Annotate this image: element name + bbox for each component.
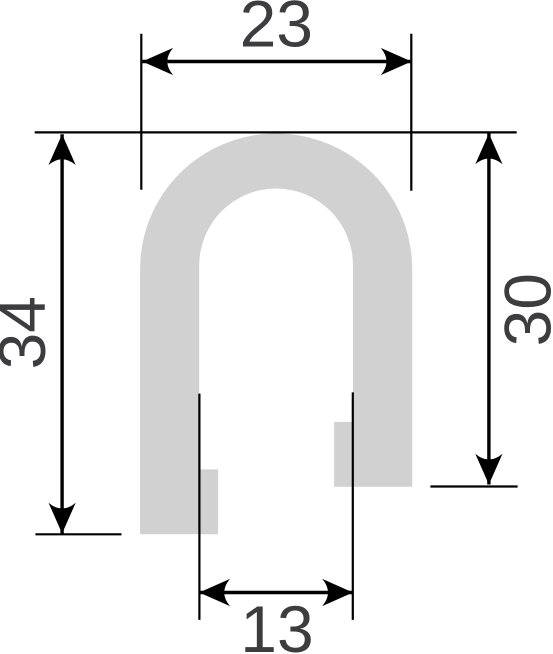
left inner rib bump (199, 469, 218, 534)
right extension line of dim 23 (410, 34, 412, 191)
arrowhead 34 up (49, 134, 76, 165)
svg-text:13: 13 (240, 592, 313, 654)
arrowhead 13 right (322, 579, 353, 606)
bottom-left extension line (datum for 34) (35, 533, 121, 535)
arrowhead 13 left (199, 579, 230, 606)
right extension line of dim 13 (352, 392, 354, 620)
arrowhead 34 down (49, 503, 76, 534)
dimension line 34 (60, 134, 63, 533)
arrowhead 23 left (142, 48, 173, 75)
U-channel profile body (140, 134, 412, 535)
left extension line of dim 23 (140, 34, 142, 190)
right inner rib bump (334, 422, 353, 487)
dimension line 13 (199, 591, 353, 594)
dimension line 30 (487, 134, 490, 485)
svg-text:30: 30 (491, 273, 553, 346)
svg-text:34: 34 (0, 296, 59, 369)
left extension line of dim 13 (198, 394, 200, 620)
dimension line 23 (142, 60, 411, 63)
bottom-right extension line (datum for 30) (430, 485, 517, 487)
arrowhead 23 right (381, 48, 412, 75)
arrowhead 30 down (475, 454, 502, 485)
svg-text:23: 23 (240, 0, 313, 61)
top extension line (datum for 34 and 30) (35, 131, 517, 133)
arrowhead 30 up (475, 134, 502, 165)
